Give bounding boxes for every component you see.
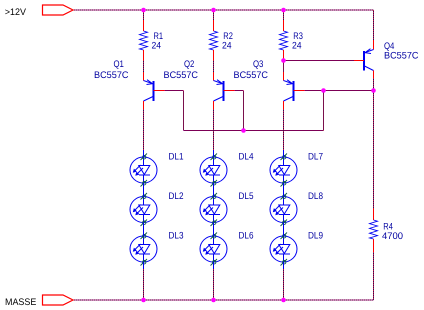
label DL4 bbox=[239, 152, 254, 163]
LED DL9 bbox=[270, 233, 297, 266]
label DL6 bbox=[239, 231, 254, 242]
wire col3 rail to R3 bbox=[283, 10, 285, 20]
label >12V bbox=[5, 7, 27, 18]
svg-text:24: 24 bbox=[152, 41, 162, 52]
wire base bus horizontal bbox=[184, 130, 324, 132]
label DL7 bbox=[308, 152, 323, 163]
svg-text:Q2: Q2 bbox=[184, 59, 194, 70]
svg-text:Q3: Q3 bbox=[253, 59, 263, 70]
LED column2 pins bbox=[213, 150, 215, 269]
svg-text:DL4: DL4 bbox=[239, 152, 254, 163]
supply connector +12V bbox=[43, 5, 74, 15]
resistor R1 bbox=[140, 20, 148, 61]
wire col3 Q3 collector to DL7 bbox=[283, 109, 285, 150]
value 24 of R1 bbox=[152, 41, 162, 52]
wire Q1 base drop bbox=[183, 91, 185, 131]
LED column1 pins bbox=[143, 150, 145, 269]
wire col1 R1 to Q1 emitter bbox=[143, 60, 145, 72]
label DL8 bbox=[308, 191, 323, 202]
wire col1 Q1 collector to DL1 bbox=[143, 109, 145, 150]
svg-text:>12V: >12V bbox=[5, 7, 27, 18]
value BC557C of Q3 bbox=[234, 70, 269, 81]
svg-text:24: 24 bbox=[292, 41, 302, 52]
svg-text:DL5: DL5 bbox=[239, 191, 254, 202]
label MASSE bbox=[5, 297, 36, 308]
label DL2 bbox=[169, 191, 184, 202]
svg-text:Q1: Q1 bbox=[114, 59, 124, 70]
LED DL6 bbox=[200, 233, 227, 266]
svg-text:MASSE: MASSE bbox=[5, 297, 36, 308]
junction col3 ground rail bbox=[281, 298, 286, 303]
label DL1 bbox=[169, 152, 184, 163]
value BC557C of Q2 bbox=[164, 70, 199, 81]
label Q2 bbox=[184, 59, 194, 70]
svg-text:DL9: DL9 bbox=[308, 231, 323, 242]
wire col2 DL6 to ground rail bbox=[213, 269, 215, 300]
svg-text:4700: 4700 bbox=[382, 231, 403, 242]
wire col1 rail to R1 bbox=[143, 10, 145, 20]
junction col1 ground rail bbox=[141, 298, 146, 303]
LED DL7 bbox=[270, 154, 297, 187]
LED DL4 bbox=[200, 154, 227, 187]
junction col1 top rail bbox=[141, 8, 146, 13]
junction Q3 base node bbox=[321, 88, 326, 93]
wire Q3 base run bbox=[305, 90, 324, 92]
value BC557C of Q1 bbox=[94, 70, 129, 81]
value 24 of R2 bbox=[222, 41, 232, 52]
wire MASSE bottom rail bbox=[73, 299, 374, 301]
wire Q4 collector down to R4 bbox=[373, 78, 375, 209]
junction Q2 base on bus bbox=[241, 128, 246, 133]
resistor R4 bbox=[370, 209, 378, 253]
wire col3 node to Q3 emitter bbox=[283, 61, 285, 73]
value 4700 of R4 bbox=[382, 231, 403, 242]
label DL9 bbox=[308, 231, 323, 242]
wire Q2 base drop bbox=[243, 91, 245, 131]
transistor Q2 bbox=[214, 72, 235, 109]
svg-text:DL2: DL2 bbox=[169, 191, 184, 202]
junction col2 top rail bbox=[211, 8, 216, 13]
LED DL3 bbox=[130, 233, 157, 266]
svg-text:BC557C: BC557C bbox=[384, 51, 419, 62]
LED column3 pins bbox=[283, 150, 285, 269]
junction R3 out / Q4 base bbox=[281, 58, 286, 63]
LED DL5 bbox=[200, 193, 227, 226]
wire Q1 base run right bbox=[165, 90, 184, 92]
wire +12V top rail bbox=[73, 9, 374, 11]
svg-text:DL1: DL1 bbox=[169, 152, 184, 163]
LED DL1 bbox=[130, 154, 157, 187]
junction col2 ground rail bbox=[211, 298, 216, 303]
value BC557C of Q4 bbox=[384, 51, 419, 62]
wire R4 to ground rail bbox=[373, 252, 375, 300]
label R4 bbox=[383, 221, 393, 232]
wire base bus riser bbox=[323, 91, 325, 131]
svg-text:BC557C: BC557C bbox=[234, 70, 269, 81]
svg-text:DL8: DL8 bbox=[308, 191, 323, 202]
wire top-right drop to Q4 emitter bbox=[373, 10, 375, 40]
svg-text:BC557C: BC557C bbox=[94, 70, 129, 81]
svg-text:BC557C: BC557C bbox=[164, 70, 199, 81]
label DL5 bbox=[239, 191, 254, 202]
LED DL2 bbox=[130, 193, 157, 226]
label DL3 bbox=[169, 231, 184, 242]
resistor R2 bbox=[210, 20, 218, 61]
label R2 bbox=[223, 31, 233, 42]
wire col3 DL9 to ground rail bbox=[283, 269, 285, 300]
wire col2 Q2 collector to DL4 bbox=[213, 109, 215, 150]
wire col2 rail to R2 bbox=[213, 10, 215, 20]
wire base node to Q4 collector line bbox=[324, 90, 374, 92]
svg-text:24: 24 bbox=[222, 41, 232, 52]
wire Q2 base run right bbox=[235, 90, 244, 92]
transistor Q4 bbox=[354, 40, 374, 78]
label Q3 bbox=[253, 59, 263, 70]
label Q4 bbox=[384, 41, 394, 52]
junction Q4 collector node bbox=[371, 88, 376, 93]
resistor R3 bbox=[280, 20, 288, 59]
transistor Q1 bbox=[144, 72, 165, 109]
LED DL8 bbox=[270, 193, 297, 226]
junction col3 top rail bbox=[281, 8, 286, 13]
label R3 bbox=[293, 31, 303, 42]
wire col2 R2 to Q2 emitter bbox=[213, 60, 215, 72]
wire col1 DL3 to ground rail bbox=[143, 269, 145, 300]
svg-text:DL3: DL3 bbox=[169, 231, 184, 242]
value 24 of R3 bbox=[292, 41, 302, 52]
svg-text:DL7: DL7 bbox=[308, 152, 323, 163]
transistor Q3 bbox=[284, 72, 305, 109]
wire node R3-out to Q4 base bbox=[284, 60, 355, 62]
svg-text:DL6: DL6 bbox=[239, 231, 254, 242]
label Q1 bbox=[114, 59, 124, 70]
label R1 bbox=[154, 31, 164, 42]
supply connector MASSE bbox=[43, 295, 74, 305]
